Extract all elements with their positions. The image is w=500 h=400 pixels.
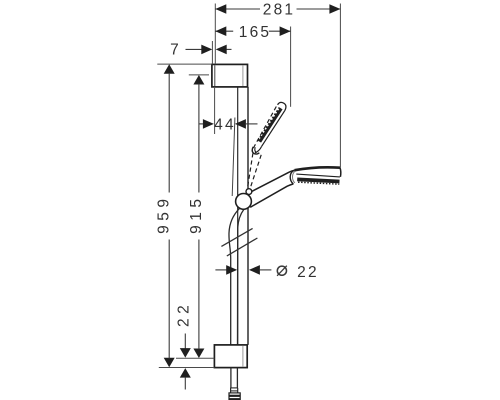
svg-text:165: 165	[239, 24, 271, 41]
dimension 915	[176, 75, 214, 358]
solid head face line	[296, 174, 340, 177]
solid head fill	[294, 167, 342, 184]
dashed shower head outer edge	[262, 110, 285, 146]
slider nub	[246, 189, 252, 195]
solid head spray teeth	[298, 182, 339, 184]
hose fitting	[229, 393, 240, 400]
svg-text:22: 22	[297, 264, 319, 281]
rail break line lower	[227, 238, 258, 256]
solid head top edge	[295, 167, 340, 170]
solid head right cap	[339, 168, 342, 177]
dimension 959	[156, 64, 215, 367]
dashed handle right edge	[250, 155, 261, 189]
svg-text:7: 7	[170, 42, 181, 59]
dashed handle left edge	[247, 153, 253, 190]
dimension 165	[215, 24, 290, 107]
solid head left neck	[290, 170, 294, 184]
svg-text:44: 44	[214, 117, 236, 134]
dashed shower head back edge	[253, 105, 277, 148]
hose right curve	[238, 210, 244, 345]
dimension 22 bottom	[176, 301, 193, 390]
slider knob	[236, 194, 252, 210]
dimension 281	[215, 2, 340, 168]
dashed shower head top cap	[278, 102, 286, 110]
solid handle bottom edge	[250, 184, 293, 207]
dimension 44	[199, 88, 258, 134]
hose left curve	[229, 208, 240, 345]
top wall bracket	[212, 64, 248, 87]
extension line slant for 44	[232, 118, 235, 197]
solid handle fill	[250, 170, 296, 207]
dashed shower head bottom joint	[255, 147, 262, 153]
wire rail right edge	[247, 87, 249, 345]
hose below bracket	[230, 368, 238, 393]
svg-text:22: 22	[176, 301, 193, 327]
bottom wall bracket	[214, 345, 247, 368]
dimension 7	[170, 41, 231, 64]
dashed shower head spray band	[258, 108, 281, 142]
wire rail left edge	[237, 87, 239, 345]
rail break line upper	[221, 228, 252, 246]
solid handle top edge	[251, 170, 295, 192]
svg-text:915: 915	[188, 195, 205, 234]
svg-text:959: 959	[156, 195, 173, 234]
dimension diameter 22	[215, 264, 318, 281]
solid head spray band	[297, 179, 339, 181]
svg-text:281: 281	[263, 2, 295, 19]
